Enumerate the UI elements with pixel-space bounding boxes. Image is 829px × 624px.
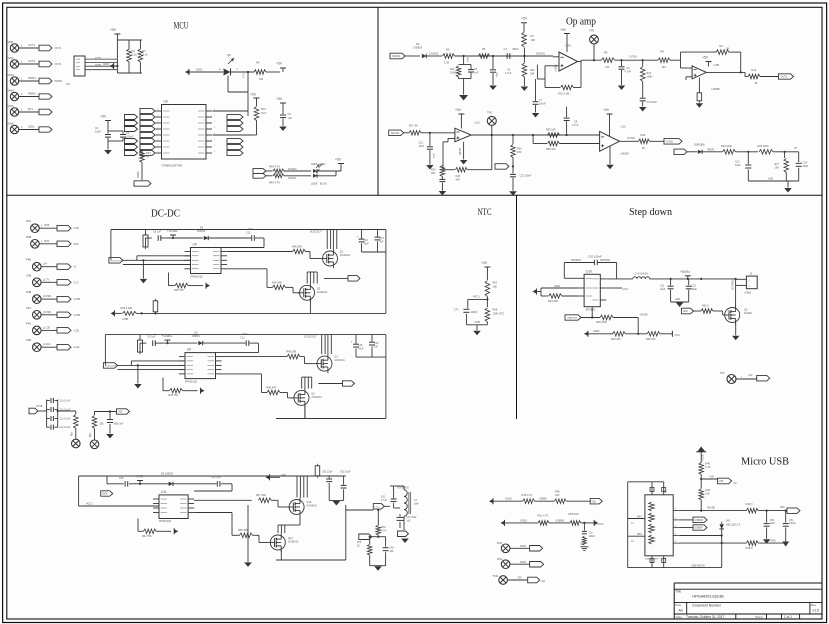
svg-text:GND: GND: [768, 179, 773, 181]
svg-text:C2x 0.1uF: C2x 0.1uF: [60, 401, 71, 403]
svg-text:+USB1: +USB1: [167, 229, 178, 233]
svg-text:4.7uF: 4.7uF: [381, 500, 387, 502]
svg-text:1.CB: 1.CB: [44, 326, 50, 329]
svg-text:C12: C12: [246, 232, 251, 235]
svg-text:170MHZ: 170MHZ: [429, 53, 439, 56]
svg-text:C4B: C4B: [26, 273, 31, 277]
svg-text:SIGIN2: SIGIN2: [391, 131, 400, 135]
svg-text:OUT2: OUT2: [55, 63, 62, 66]
svg-text:DCDCOUT: DCDCOUT: [310, 231, 322, 234]
svg-text:R1: R1: [531, 34, 535, 38]
svg-text:43K: 43K: [456, 178, 461, 181]
svg-text:R66 0.005: R66 0.005: [121, 307, 133, 310]
svg-text:R25 100K: R25 100K: [758, 145, 769, 148]
svg-text:R46 30K: R46 30K: [611, 338, 621, 341]
svg-text:USB5V: USB5V: [539, 498, 547, 501]
svg-text:C6 1uF: C6 1uF: [147, 336, 156, 339]
svg-text:D4B: D4B: [26, 290, 31, 294]
svg-text:GND: GND: [103, 62, 109, 66]
svg-text:R49: R49: [641, 134, 646, 137]
svg-text:+5V: +5V: [100, 115, 107, 119]
svg-text:R35 10K: R35 10K: [546, 129, 556, 132]
svg-text:VHUSB: VHUSB: [707, 508, 715, 510]
svg-text:R55 30R: R55 30R: [238, 529, 248, 532]
svg-text:VY: VY: [74, 266, 78, 269]
svg-text:SIGIN1: SIGIN1: [392, 54, 401, 58]
svg-text:V50: V50: [118, 411, 123, 414]
svg-text:5VPM: 5VPM: [95, 57, 101, 59]
svg-text:45K: 45K: [431, 172, 436, 175]
svg-text:5.1K: 5.1K: [143, 53, 149, 57]
svg-text:+GND: +GND: [744, 291, 751, 294]
svg-text:VCC: VCC: [675, 333, 681, 337]
svg-text:TP6: TP6: [487, 111, 492, 115]
svg-text:C62 10uF: C62 10uF: [340, 471, 351, 474]
svg-text:P4H: P4H: [26, 321, 31, 325]
svg-text:+5V: +5V: [603, 108, 610, 112]
svg-text:SIGNA1: SIGNA1: [536, 53, 545, 56]
svg-text:SWIM: SWIM: [95, 64, 101, 66]
svg-text:C6 1uF: C6 1uF: [153, 231, 162, 234]
svg-text:AO3401A: AO3401A: [307, 505, 318, 508]
svg-text:L2 4.7uH/2A: L2 4.7uH/2A: [634, 272, 649, 276]
svg-text:Sheet: Sheet: [755, 615, 763, 619]
svg-text:Size: Size: [675, 603, 681, 607]
svg-text:USB-MICRO: USB-MICRO: [691, 565, 705, 568]
svg-text:GND: GND: [770, 539, 776, 542]
svg-text:MP1: MP1: [637, 516, 642, 518]
svg-text:VREF1: VREF1: [707, 149, 715, 151]
svg-text:R75: R75: [357, 542, 362, 544]
svg-text:USBDM: USBDM: [695, 520, 703, 522]
svg-text:10nF: 10nF: [770, 522, 776, 525]
svg-text:250R: 250R: [102, 494, 108, 496]
svg-text:GBLC05C-LF: GBLC05C-LF: [726, 523, 741, 526]
svg-text:CON2: CON2: [666, 141, 674, 144]
svg-text:2.7V: 2.7V: [44, 278, 49, 281]
svg-text:BT3601: BT3601: [586, 307, 596, 311]
svg-text:Date:: Date:: [676, 615, 683, 619]
svg-text:U13: U13: [621, 125, 627, 129]
svg-text:10K: 10K: [775, 167, 780, 170]
svg-text:10uF: 10uF: [692, 288, 698, 291]
svg-text:+5V: +5V: [481, 261, 488, 265]
svg-text:6K: 6K: [642, 147, 645, 150]
svg-text:FP6601Q2: FP6601Q2: [185, 381, 198, 384]
svg-text:100nF: 100nF: [589, 536, 596, 538]
svg-text:TP41: TP41: [493, 575, 500, 578]
svg-text:SNS: SNS: [44, 240, 49, 243]
svg-text:U1B: U1B: [714, 63, 720, 67]
svg-text:1.3K: 1.3K: [444, 61, 450, 65]
svg-text:R55 10K: R55 10K: [546, 148, 556, 151]
svg-text:R46 34R: R46 34R: [272, 282, 282, 285]
svg-text:10K: 10K: [705, 493, 710, 496]
svg-text:GND: GND: [196, 68, 202, 72]
svg-text:1N5819: 1N5819: [197, 230, 206, 233]
svg-text:R9: R9: [256, 61, 260, 65]
svg-text:GND: GND: [554, 284, 560, 288]
svg-text:STM8S103F3P6: STM8S103F3P6: [162, 164, 183, 168]
svg-text:4K: 4K: [146, 155, 149, 159]
svg-text:1K: 1K: [357, 545, 360, 547]
svg-text:AO3401A: AO3401A: [340, 254, 351, 257]
svg-text:2.2uF: 2.2uF: [44, 343, 51, 346]
svg-text:Micro USB: Micro USB: [741, 457, 789, 468]
svg-text:VUSB: VUSB: [44, 311, 51, 314]
svg-text:D6 1N5819: D6 1N5819: [161, 472, 174, 475]
svg-text:OUT1: OUT1: [781, 76, 788, 79]
svg-text:R46 100K: R46 100K: [596, 321, 607, 324]
svg-text:140: 140: [605, 66, 610, 69]
svg-text:R51 4.7K: R51 4.7K: [538, 514, 549, 518]
svg-text:R48 30R: R48 30R: [292, 246, 302, 249]
svg-text:+5V: +5V: [560, 28, 567, 32]
svg-text:4.7K: 4.7K: [243, 73, 246, 78]
svg-text:R5: R5: [482, 47, 486, 51]
svg-text:VUSB: VUSB: [36, 406, 43, 408]
svg-text:FID1: FID1: [497, 542, 503, 545]
svg-text:C61 22uF: C61 22uF: [322, 471, 333, 474]
svg-text:V33: V33: [719, 480, 724, 483]
svg-text:16V: 16V: [407, 521, 412, 523]
svg-text:C1P C46: C1P C46: [211, 476, 221, 479]
svg-text:AO3401A: AO3401A: [311, 396, 322, 399]
svg-text:0.05R: 0.05R: [122, 318, 129, 321]
svg-text:OUT1: OUT1: [28, 43, 35, 47]
svg-text:1N5819: 1N5819: [413, 46, 423, 50]
svg-text:BT1: BT1: [28, 107, 33, 111]
svg-text:R51: R51: [382, 527, 387, 529]
svg-text:1N5819: 1N5819: [191, 335, 200, 338]
svg-text:USB5-MICRO: USB5-MICRO: [645, 558, 659, 560]
svg-text:C61 10uF: C61 10uF: [407, 517, 418, 519]
svg-text:J1: J1: [750, 271, 753, 275]
svg-text:100K: 100K: [450, 72, 456, 75]
svg-text:93K: 93K: [530, 73, 535, 76]
svg-text:R17 3K: R17 3K: [409, 123, 418, 127]
svg-text:BLUE: BLUE: [320, 183, 327, 186]
svg-text:LED1: LED1: [28, 125, 35, 129]
svg-text:100nF: 100nF: [471, 311, 479, 314]
svg-text:MP2: MP2: [637, 534, 642, 536]
svg-text:2.2uF: 2.2uF: [74, 346, 81, 349]
svg-text:R56 10K: R56 10K: [569, 512, 579, 516]
svg-text:OUT1A: OUT1A: [629, 56, 637, 59]
svg-text:+5V: +5V: [276, 97, 283, 101]
svg-text:SW4: SW4: [8, 89, 15, 93]
svg-text:USBDP: USBDP: [695, 528, 703, 530]
svg-text:10uF: 10uF: [363, 242, 369, 245]
svg-text:AO3401A: AO3401A: [317, 291, 328, 294]
svg-text:R48 4.7K: R48 4.7K: [522, 493, 533, 497]
svg-text:C2x 0.1uF: C2x 0.1uF: [60, 419, 71, 421]
svg-text:P4B: P4B: [26, 258, 31, 262]
svg-text:C22 100nF: C22 100nF: [520, 175, 532, 178]
svg-text:VCC1: VCC1: [86, 502, 93, 505]
svg-text:R45 75K: R45 75K: [174, 289, 184, 292]
svg-text:I2CSDA: I2CSDA: [288, 168, 297, 171]
svg-text:R49 0: R49 0: [746, 502, 753, 506]
svg-text:U5: U5: [66, 82, 70, 86]
svg-text:C12: C12: [240, 337, 245, 340]
svg-text:R2: R2: [720, 44, 724, 48]
svg-text:D4: D4: [416, 42, 420, 46]
svg-text:C1: C1: [504, 47, 508, 51]
svg-text:0805 3uF: 0805 3uF: [114, 424, 124, 426]
svg-text:GND: GND: [675, 299, 680, 301]
svg-text:C5: C5: [288, 112, 292, 116]
svg-text:GND1: GND1: [505, 498, 513, 501]
svg-text:U11: U11: [161, 490, 167, 494]
svg-text:GND2: GND2: [593, 331, 600, 333]
svg-text:+5V: +5V: [335, 158, 342, 162]
svg-text:GND: GND: [475, 320, 481, 324]
svg-text:+5V: +5V: [455, 108, 462, 112]
svg-text:GND1: GND1: [520, 519, 528, 522]
svg-text:SD-PWM2: SD-PWM2: [732, 278, 735, 290]
svg-text:12000: 12000: [520, 546, 527, 548]
svg-text:R15 2.2M: R15 2.2M: [558, 92, 569, 96]
svg-text:FP6601Q2: FP6601Q2: [191, 276, 204, 279]
svg-text:FID2: FID2: [497, 558, 503, 561]
svg-text:+USB: +USB: [701, 454, 704, 461]
svg-text:SW6: SW6: [8, 122, 15, 126]
svg-text:R49 4.7K: R49 4.7K: [269, 181, 280, 185]
svg-text:LM358: LM358: [555, 64, 558, 72]
svg-text:545: 545: [259, 78, 264, 81]
svg-text:Step down: Step down: [629, 207, 672, 218]
svg-text:LED6: LED6: [311, 183, 318, 186]
svg-text:Title: Title: [675, 590, 681, 594]
svg-text:Q5: Q5: [227, 53, 231, 57]
svg-text:R46 34R: R46 34R: [266, 387, 276, 390]
svg-text:C58: C58: [99, 423, 104, 426]
svg-text:1.CB: 1.CB: [74, 329, 80, 332]
svg-text:C3: C3: [95, 126, 99, 130]
svg-text:R10: R10: [261, 107, 266, 111]
svg-text:DC-DC: DC-DC: [151, 209, 180, 220]
svg-text:+USB1: +USB1: [161, 334, 172, 338]
svg-text:R6: R6: [604, 51, 608, 55]
svg-text:Op amp: Op amp: [566, 17, 596, 28]
svg-text:R61: R61: [493, 281, 498, 285]
svg-text:TP4: TP4: [720, 371, 725, 375]
svg-text:VCB: VCB: [44, 224, 49, 227]
svg-text:SDPWN1: SDPWN1: [571, 259, 582, 262]
svg-text:100K NTC: 100K NTC: [493, 312, 505, 315]
svg-text:VBATSNS: VBATSNS: [567, 317, 578, 320]
svg-text:LM358: LM358: [460, 147, 462, 155]
svg-text:R20 100K: R20 100K: [721, 145, 732, 148]
svg-text:10K: 10K: [555, 494, 560, 497]
svg-text:VY: VY: [44, 263, 48, 266]
svg-text:R12: R12: [752, 68, 757, 72]
svg-text:D41: D41: [726, 520, 731, 523]
svg-text:T5VSMOS: T5VSMOS: [397, 486, 409, 489]
svg-text:GND: GND: [434, 153, 436, 158]
svg-text:LM358: LM358: [621, 152, 629, 156]
svg-text:SDPWN2: SDPWN2: [600, 259, 611, 262]
svg-text:R3: R3: [446, 48, 450, 52]
svg-text:AO3401A: AO3401A: [334, 359, 345, 362]
svg-text:1uF: 1uF: [288, 116, 293, 120]
svg-text:Tuesday, October 31, 2017: Tuesday, October 31, 2017: [686, 615, 724, 619]
svg-text:VCB: VCB: [74, 227, 79, 230]
svg-text:U6: U6: [187, 348, 191, 352]
svg-text:SWIM: SWIM: [137, 171, 140, 178]
svg-text:SW2: SW2: [8, 56, 15, 60]
svg-text:VUSB: VUSB: [74, 298, 81, 301]
svg-text:1 of 1: 1 of 1: [784, 615, 792, 619]
svg-text:1uF: 1uF: [379, 240, 384, 243]
svg-text:R48 30R: R48 30R: [286, 351, 296, 354]
svg-text:+5V: +5V: [110, 28, 117, 32]
svg-text:R4x 75K: R4x 75K: [142, 535, 152, 538]
svg-text:C43: C43: [390, 548, 395, 550]
svg-text:GND: GND: [497, 72, 499, 77]
svg-text:R8: R8: [661, 50, 665, 54]
svg-text:R48 4.7K: R48 4.7K: [269, 165, 280, 169]
svg-text:C66: C66: [119, 477, 124, 480]
svg-text:10uF: 10uF: [419, 145, 425, 148]
svg-text:V50: V50: [518, 578, 523, 580]
svg-text:DCDCOUT: DCDCOUT: [304, 336, 316, 339]
svg-text:10uF: 10uF: [735, 164, 741, 167]
svg-text:3uH: 3uH: [414, 503, 419, 506]
svg-text:GND: GND: [281, 475, 286, 477]
svg-text:OUT2: OUT2: [28, 59, 35, 63]
svg-text:NTC1: NTC1: [473, 294, 480, 298]
svg-text:C61: C61: [381, 497, 386, 499]
svg-text:12000: 12000: [520, 562, 527, 564]
svg-text:1M: 1M: [726, 48, 729, 51]
svg-text:GND: GND: [468, 57, 470, 62]
svg-text:10uF: 10uF: [95, 130, 101, 134]
svg-text:AO3401A: AO3401A: [288, 541, 299, 544]
svg-text:SD2: SD2: [683, 310, 688, 313]
svg-text:10uF: 10uF: [358, 347, 364, 350]
svg-text:SW3: SW3: [8, 73, 15, 77]
svg-text:SW1: SW1: [8, 40, 15, 44]
svg-text:R4: R4: [132, 49, 136, 53]
svg-text:U6: U6: [193, 243, 197, 247]
svg-text:SNS: SNS: [74, 243, 79, 246]
svg-text:DCDCOUT1: DCDCOUT1: [111, 261, 124, 263]
svg-text:V50: V50: [780, 506, 785, 509]
svg-text:U10: U10: [586, 269, 592, 273]
svg-text:R47 30R: R47 30R: [256, 494, 266, 497]
svg-text:R48 10K: R48 10K: [646, 338, 656, 341]
svg-text:+5VSW: +5VSW: [640, 314, 649, 317]
svg-text:HPGA8351JQE3B: HPGA8351JQE3B: [692, 595, 724, 599]
svg-text:+5V: +5V: [748, 374, 753, 377]
svg-text:+5V: +5V: [702, 56, 709, 60]
svg-text:+5VIN: +5VIN: [680, 270, 690, 274]
svg-text:+VCC: +VCC: [597, 523, 604, 526]
svg-text:4.7K: 4.7K: [382, 530, 387, 532]
svg-text:100K: 100K: [647, 76, 653, 79]
svg-text:VCC: VCC: [623, 287, 629, 291]
svg-text:R45 75K: R45 75K: [168, 394, 178, 397]
svg-text:5.1K: 5.1K: [705, 466, 710, 469]
svg-text:Document Number: Document Number: [692, 604, 721, 608]
svg-text:5.1K: 5.1K: [261, 111, 267, 115]
svg-text:U8: U8: [164, 100, 168, 104]
svg-text:U12: U12: [475, 121, 481, 125]
svg-text:LCC: LCC: [375, 507, 380, 509]
svg-text:A4: A4: [679, 608, 683, 612]
svg-text:v1.5: v1.5: [813, 608, 820, 612]
svg-text:4.7nF: 4.7nF: [625, 71, 632, 74]
svg-text:LM358: LM358: [712, 87, 720, 91]
svg-text:VUSB: VUSB: [44, 295, 51, 298]
svg-text:C71: C71: [454, 309, 459, 312]
svg-text:R44: R44: [146, 151, 151, 155]
svg-text:+5V: +5V: [276, 62, 283, 66]
svg-text:C2x 0.1uF: C2x 0.1uF: [60, 427, 71, 429]
svg-text:V50: V50: [592, 500, 597, 503]
svg-text:100nF: 100nF: [789, 522, 796, 525]
svg-text:V33: V33: [710, 476, 715, 479]
svg-text:10K: 10K: [531, 38, 536, 42]
svg-text:FP6601Q2: FP6601Q2: [159, 520, 172, 523]
svg-text:1nF: 1nF: [474, 72, 479, 75]
svg-text:1uF: 1uF: [374, 345, 379, 348]
svg-text:R60 0: R60 0: [702, 304, 709, 307]
svg-text:Rev: Rev: [811, 603, 817, 607]
svg-text:PWM1: PWM1: [28, 76, 36, 80]
svg-text:68nF: 68nF: [513, 47, 519, 51]
svg-text:2.7V: 2.7V: [74, 281, 79, 284]
svg-text:SW5: SW5: [8, 104, 15, 108]
svg-text:VUSB: VUSB: [74, 314, 81, 317]
svg-text:R44 30K: R44 30K: [548, 299, 558, 303]
svg-text:S4B: S4B: [26, 338, 31, 342]
svg-text:100nF: 100nF: [126, 135, 134, 139]
svg-text:R68: R68: [493, 308, 498, 312]
svg-text:OUT1: OUT1: [55, 47, 62, 50]
svg-text:10uF: 10uF: [660, 288, 666, 291]
svg-text:10K: 10K: [493, 284, 498, 288]
svg-text:LED5: LED5: [311, 163, 318, 166]
svg-text:93K: 93K: [517, 151, 522, 154]
svg-text:+5V: +5V: [521, 17, 528, 21]
svg-text:NTC: NTC: [478, 208, 492, 218]
svg-text:R4B: R4B: [26, 235, 31, 239]
svg-text:5.1K: 5.1K: [132, 53, 138, 57]
svg-text:I2CSCL: I2CSCL: [288, 177, 297, 180]
svg-text:USBDM: USBDM: [556, 519, 565, 522]
svg-text:DCDCOUT2: DCDCOUT2: [105, 366, 118, 368]
svg-text:R7: R7: [143, 49, 147, 53]
svg-text:140: 140: [662, 66, 667, 69]
svg-text:PWM1: PWM1: [55, 80, 63, 83]
svg-text:MCU: MCU: [174, 22, 189, 32]
svg-text:ALM62: ALM62: [744, 312, 753, 315]
svg-text:OUT2A: OUT2A: [627, 137, 635, 140]
svg-text:+5V: +5V: [250, 93, 257, 97]
svg-text:10uF: 10uF: [803, 165, 809, 168]
svg-text:C9 100nF: C9 100nF: [647, 101, 658, 104]
svg-text:P4G: P4G: [26, 306, 31, 310]
svg-text:R4A: R4A: [26, 219, 31, 223]
svg-text:+VYB: +VYB: [134, 475, 144, 479]
svg-text:R48 0: R48 0: [746, 546, 753, 550]
svg-text:U5A: U5A: [566, 44, 572, 48]
svg-text:100nF: 100nF: [539, 103, 546, 106]
svg-text:4.7nF: 4.7nF: [505, 72, 512, 75]
